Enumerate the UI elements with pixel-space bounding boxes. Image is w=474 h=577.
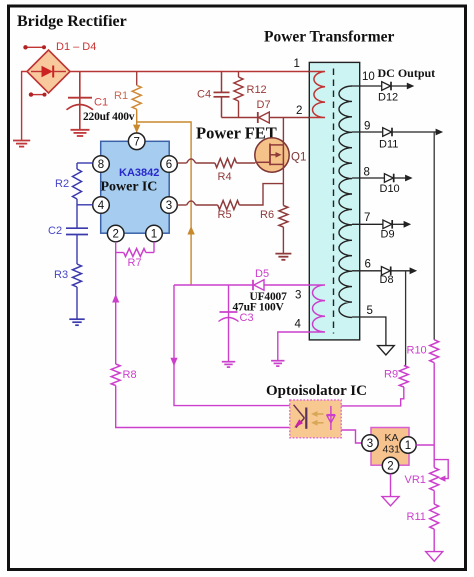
capacitor C1 [67,72,94,130]
svg-text:R2: R2 [55,178,69,190]
optoisolator phototransistor [327,406,336,430]
svg-text:220uf 400v: 220uf 400v [83,111,135,123]
svg-text:2: 2 [112,229,118,241]
pin label 3 [295,290,301,302]
svg-text:Optoisolator IC: Optoisolator IC [266,383,367,399]
svg-text:R11: R11 [407,511,426,523]
pin 7 [128,133,145,150]
ground (C1) [71,130,90,136]
label R4 [218,171,232,183]
wire aux to opto LED anode (magenta, down arrow) [170,285,289,406]
wire tap6 node down (black) [405,271,407,366]
wire DC+ top rail [70,71,309,73]
wire Q1 drain up [282,118,284,145]
optoisolator U2 body [290,400,341,438]
capacitor C3 [219,285,239,361]
diode D8 [381,267,417,276]
value 47uF 100V [233,302,285,314]
label R3 [54,269,68,281]
title Power Transformer [264,29,395,46]
label D7 [257,99,271,111]
resistor R5 [218,201,240,210]
pin 2 [107,225,124,242]
label Power IC [101,180,158,195]
pin label 6 [365,259,371,271]
wire pin2 node to R8 (magenta, up arrow) [112,253,119,365]
pin label 1 [294,58,300,70]
svg-text:431: 431 [383,444,401,456]
potentiometer VR1 [430,460,449,491]
bridge rectifier D1-D4 [27,50,70,93]
tap 5 wire [352,317,386,345]
svg-text:8: 8 [98,159,104,171]
wire VR1 to R11 [433,491,435,505]
label R12 [247,84,267,96]
label VR1 [405,474,426,486]
svg-text:1: 1 [151,229,157,241]
wire tap9 node down (black) [433,132,435,340]
label R11 [407,511,426,523]
pin 3 [161,197,178,214]
svg-text:Power IC: Power IC [101,180,158,195]
capacitor C2 [66,228,88,234]
ground (pin4) [271,361,284,366]
svg-text:C4: C4 [197,89,211,101]
ground (pin5 open triangle) [378,346,395,355]
resistor R11 [430,504,439,529]
optoisolator LED [294,405,307,429]
diode D7 [258,112,270,123]
svg-text:1: 1 [405,440,411,452]
wire Q1 source down [282,164,284,205]
wire snubber bottom / pin2 net [222,117,310,119]
pin label 8 [364,167,370,179]
label D10 [380,183,400,195]
label D1 - D4 [56,41,96,53]
label C3 [240,312,254,324]
label R5 [218,209,232,221]
resistor R3 [73,264,82,287]
svg-text:6: 6 [365,259,371,271]
svg-text:3: 3 [367,438,373,450]
svg-text:VR1: VR1 [405,474,426,486]
svg-text:Power Transformer: Power Transformer [264,29,395,46]
svg-text:4: 4 [295,319,302,331]
label KA3842 [119,167,159,179]
label 431 [383,444,401,456]
transformer T1 body [309,62,359,340]
wire R5 to Q1 source [239,184,283,205]
svg-text:6: 6 [166,159,172,171]
tap 10 wire [352,85,382,87]
svg-text:R8: R8 [123,369,137,381]
wire R6 to ground [282,227,284,253]
resistor R10 [430,340,439,363]
label DC Output [378,66,436,80]
label R10 [407,345,427,357]
wire R2 to pin4 (blue) [77,199,93,228]
wire transformer pin4 to ground [278,332,310,360]
svg-text:R9: R9 [384,369,398,381]
svg-text:D8: D8 [380,274,394,286]
wire R1 to pin7 (orange) [133,109,140,133]
ground (R3, blue) [69,319,84,325]
ground (R11 open triangle) [426,552,443,562]
svg-text:R6: R6 [260,209,274,221]
pin 6 [161,156,178,173]
title Power FET [196,124,277,143]
wire bridge negative to ground [22,72,27,141]
resistor R6 [279,206,288,228]
svg-text:2: 2 [387,461,393,473]
label D9 [381,229,395,241]
label C1 [94,97,108,109]
svg-text:R4: R4 [218,171,232,183]
tap 7 wire [352,223,383,225]
wire KA431 pin1 to R10 node [416,444,434,446]
KA431 pin 3 [362,435,378,451]
svg-text:C3: C3 [240,312,254,324]
svg-text:9: 9 [364,121,370,133]
resistor R7 [116,249,154,257]
wire pin1 down (magenta) [153,242,155,253]
diode D5 [253,280,264,290]
tap 9 wire [352,131,383,133]
pin 4 [93,197,110,214]
wire C2 to R3 [76,235,78,265]
svg-text:Bridge Rectifier: Bridge Rectifier [17,13,127,30]
transformer core dashed line [333,69,335,334]
label D11 [379,139,398,151]
svg-text:C2: C2 [48,225,62,237]
svg-text:D5: D5 [255,268,269,280]
optoisolator light arrows [311,411,324,426]
svg-text:2: 2 [296,105,302,117]
svg-text:R12: R12 [247,84,267,96]
svg-text:7: 7 [133,137,139,149]
diode D11 [383,128,443,137]
pin label 10 [362,71,375,83]
svg-text:D7: D7 [257,99,271,111]
svg-text:10: 10 [362,71,375,83]
value 220uf 400v [83,111,135,123]
wire aux winding pin3 net (magenta) [174,284,309,286]
resistor R1 [132,72,141,110]
resistor R4 [215,159,255,168]
diode D12 [382,82,415,91]
label D8 [380,274,394,286]
wire R3 to ground [76,287,78,319]
svg-text:4: 4 [98,200,105,212]
svg-text:R5: R5 [218,209,232,221]
svg-text:D12: D12 [378,92,398,104]
shunt regulator U3 KA431 body [371,428,409,466]
tap 6 wire [352,270,382,272]
ground (KA431 pin2 open triangle) [382,497,399,506]
svg-text:D11: D11 [379,139,398,151]
wire R11 to ground [433,529,435,551]
wire pin3 to R5 with hop [177,201,218,205]
diode D9 [383,220,411,229]
value UF4007 [250,291,288,303]
AC input stub bottom [29,92,47,96]
pin label 5 [367,305,373,317]
resistor R2 [73,163,82,199]
transistor Q1 [255,138,289,172]
label C4 [197,89,211,101]
svg-text:7: 7 [364,212,370,224]
label Q1 [291,152,306,164]
svg-text:5: 5 [367,305,373,317]
wire R8 to optocoupler LED cathode [116,386,290,428]
svg-text:1: 1 [294,58,300,70]
label R6 [260,209,274,221]
label R8 [123,369,137,381]
capacitor C4 [214,72,230,118]
pin 8 [93,156,110,173]
svg-text:D10: D10 [380,183,400,195]
pin label 7 [364,212,370,224]
transformer auxiliary winding (pins 3-4) [309,285,325,332]
ground (C3) [222,362,235,367]
label R1 [114,90,128,102]
wire opto emitter to KA431 pin3 [341,430,362,443]
svg-text:3: 3 [295,290,301,302]
transformer primary winding (pins 1-2) [309,72,325,118]
pin label 9 [364,121,370,133]
label R2 [55,178,69,190]
resistor R8 [111,364,120,386]
label C2 [48,225,62,237]
ground (R6) [275,254,291,260]
pin 1 [146,225,163,242]
resistor R12 [234,72,243,118]
svg-text:D1 – D4: D1 – D4 [56,41,96,53]
svg-text:DC Output: DC Output [378,66,436,80]
resistor R9 [399,366,408,388]
transformer secondary winding (pins 10-5) [339,86,352,317]
label R7 [128,257,142,269]
wire pin2 down (magenta) [115,242,117,253]
ground (bridge) [13,141,30,147]
title Bridge Rectifier [17,13,127,30]
svg-text:3: 3 [166,200,172,212]
svg-text:Q1: Q1 [291,152,306,164]
svg-text:KA3842: KA3842 [119,167,159,179]
svg-text:D9: D9 [381,229,395,241]
wire KA431 pin2 to ground [390,474,392,497]
wire Vcc branch (orange) [137,122,195,285]
tap 8 wire [352,177,385,179]
svg-text:KA: KA [385,432,399,444]
label D12 [378,92,398,104]
svg-text:R3: R3 [54,269,68,281]
label KA [385,432,399,444]
wire pin8 left (blue) [77,162,93,164]
svg-text:R1: R1 [114,90,128,102]
wire R9 to opto transistor collector [341,387,404,406]
AC input stub top [23,45,46,49]
label R9 [384,369,398,381]
pin label 4 [295,319,302,331]
svg-text:R10: R10 [407,345,427,357]
svg-text:C1: C1 [94,97,108,109]
KA431 pin 1 [400,437,416,453]
svg-text:8: 8 [364,167,370,179]
diode D10 [384,174,412,183]
KA431 pin 2 [382,457,398,473]
svg-text:R7: R7 [128,257,142,269]
op-amp IC U1 KA3842 body [101,141,170,233]
label D5 [255,268,269,280]
wire pin6 to R4 with hop [177,159,215,163]
wire R10 down to KA431 pin1 node [433,363,435,468]
title Optoisolator IC [266,383,367,399]
pin label 2 [296,105,302,117]
